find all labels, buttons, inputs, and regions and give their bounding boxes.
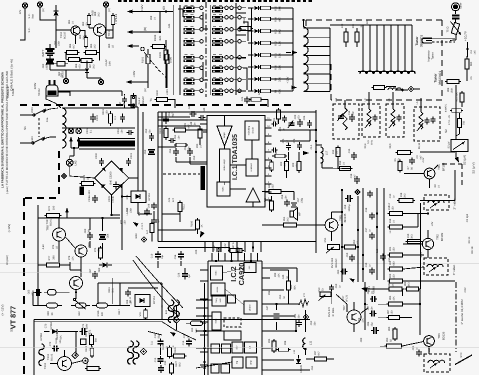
node label R14	[275, 17, 282, 22]
svg-text:C47: C47	[266, 305, 269, 310]
node label	[346, 252, 349, 257]
node label	[274, 272, 281, 278]
wire	[60, 264, 71, 266]
svg-text:RV1: RV1	[324, 237, 327, 242]
svg-text:Tuner: Tuner	[434, 73, 438, 83]
node label	[348, 110, 355, 115]
node pin numbers U1	[267, 117, 270, 200]
diode D27	[248, 89, 259, 93]
wire	[20, 114, 33, 116]
wire	[273, 7, 294, 9]
svg-text:C50: C50	[168, 111, 171, 116]
svg-text:R125: R125	[162, 343, 165, 350]
wire	[408, 72, 410, 75]
svg-text:1K: 1K	[343, 162, 346, 165]
svg-text:C18: C18	[376, 248, 379, 253]
svg-text:R63: R63	[79, 34, 82, 39]
svg-text:C53: C53	[335, 283, 338, 288]
wire	[44, 108, 58, 111]
svg-text:C21: C21	[279, 126, 282, 131]
wire	[337, 157, 339, 168]
wire	[102, 243, 104, 248]
capacitor C205	[113, 181, 119, 189]
resistor R110	[174, 143, 188, 147]
node label	[85, 345, 92, 352]
resistor R47b	[249, 98, 263, 102]
ic U2 box4	[244, 301, 257, 314]
node pin numbers U2	[211, 258, 259, 261]
node label R9	[275, 77, 282, 82]
node label TR2	[436, 232, 445, 241]
svg-text:4K7: 4K7	[73, 44, 76, 49]
wire	[365, 72, 367, 75]
svg-text:R49: R49	[268, 183, 271, 188]
svg-text:NTC: NTC	[460, 352, 463, 357]
wire	[241, 90, 246, 92]
svg-text:(+ -12V): (+ -12V)	[1, 305, 5, 316]
resistor R12b	[336, 146, 340, 159]
terminal X5	[98, 79, 103, 84]
terminal small circle	[141, 47, 145, 51]
node left note col2	[1, 59, 14, 332]
wire	[228, 7, 230, 9]
node label	[58, 70, 65, 78]
node label	[367, 305, 374, 310]
svg-text:C68: C68	[126, 207, 129, 212]
node label	[82, 21, 89, 26]
wire	[230, 188, 246, 190]
wire	[403, 226, 418, 228]
svg-text:R124: R124	[86, 360, 89, 367]
node label	[47, 311, 54, 316]
switch contact S8a	[184, 88, 195, 95]
terminal X6	[68, 128, 74, 134]
wire	[299, 224, 326, 226]
svg-text:32 (A4C): 32 (A4C)	[6, 255, 9, 265]
svg-text:R204: R204	[83, 174, 86, 181]
wire	[419, 289, 421, 335]
wire	[345, 42, 347, 47]
wire	[196, 362, 232, 368]
wire	[233, 40, 238, 42]
wire pin	[265, 135, 272, 137]
svg-text:C83: C83	[360, 337, 363, 342]
filter L12 box	[424, 354, 450, 372]
svg-text:BD241: BD241	[50, 218, 53, 226]
wire	[86, 61, 88, 67]
wire	[228, 56, 230, 58]
wire	[397, 25, 399, 71]
resistor R20b	[458, 117, 466, 130]
svg-text:-11,4V: -11,4V	[105, 59, 108, 67]
svg-text:TR5: TR5	[339, 215, 343, 221]
svg-text:150: 150	[393, 247, 396, 252]
node label	[98, 267, 101, 272]
node label	[389, 193, 396, 198]
node label	[52, 244, 59, 249]
wire	[33, 304, 38, 306]
svg-text:TIP141: TIP141	[114, 14, 118, 25]
node label	[416, 101, 419, 104]
inductor L6	[428, 200, 444, 208]
svg-text:3K3: 3K3	[408, 282, 411, 287]
svg-text:560: 560	[470, 61, 473, 66]
wire	[20, 142, 32, 144]
wire	[196, 347, 232, 349]
svg-text:470: 470	[398, 158, 401, 163]
transistor TR5 BD135	[325, 219, 338, 232]
switch contact S6b	[212, 65, 223, 72]
svg-text:C66: C66	[126, 299, 129, 304]
svg-text:C11: C11	[154, 333, 157, 338]
svg-text:470: 470	[322, 288, 325, 293]
ic U2 box2	[211, 283, 225, 296]
svg-text:R83: R83	[47, 311, 50, 316]
wire	[65, 53, 67, 60]
wire	[112, 304, 130, 306]
node label	[360, 337, 363, 342]
resistor R13b	[338, 167, 353, 171]
wire bus	[292, 8, 294, 91]
svg-text:1K: 1K	[72, 21, 75, 24]
svg-text:36,15: 36,15	[418, 142, 421, 149]
resistor R90b	[385, 344, 404, 348]
wire	[49, 58, 51, 70]
wire	[87, 77, 101, 79]
resistor R121	[90, 334, 98, 347]
wire dashed link	[38, 118, 40, 137]
node label	[341, 19, 369, 28]
node label	[367, 289, 374, 294]
svg-text:C59: C59	[346, 252, 349, 257]
inductor tuner coil bump	[374, 71, 380, 74]
node label	[389, 218, 396, 223]
node junction	[203, 299, 205, 363]
wire	[133, 107, 135, 108]
wire	[414, 88, 420, 90]
wire	[137, 107, 139, 191]
svg-text:C58: C58	[344, 204, 347, 209]
node label BY151	[126, 193, 151, 201]
wire bus	[235, 3, 237, 95]
svg-text:BF199: BF199	[440, 232, 444, 241]
svg-text:A17: A17	[146, 229, 149, 234]
svg-text:SM139: SM139	[300, 364, 303, 373]
svg-text:1μF: 1μF	[188, 273, 191, 278]
node label	[108, 286, 115, 292]
rectifier bridge B40	[95, 161, 129, 195]
wire	[228, 90, 230, 92]
svg-text:100: 100	[53, 205, 56, 210]
node label	[376, 248, 379, 253]
svg-text:10n: 10n	[123, 102, 126, 107]
svg-text:R82: R82	[404, 281, 407, 286]
svg-text:BY884: BY884	[50, 322, 53, 330]
svg-text:I.C.1 TDA1035: I.C.1 TDA1035	[232, 134, 239, 180]
resistor R77	[45, 255, 62, 267]
node label	[292, 162, 299, 168]
svg-text:+15V: +15V	[88, 190, 91, 196]
resistor R109	[173, 128, 188, 132]
svg-text:150: 150	[98, 248, 101, 253]
terminal X1	[22, 3, 27, 8]
wire	[365, 303, 368, 305]
wire pin	[262, 315, 270, 317]
resistor R65	[84, 51, 99, 55]
wire pin	[262, 359, 270, 361]
wire	[344, 100, 346, 108]
svg-text:TR7: TR7	[342, 295, 345, 300]
svg-text:C15: C15	[183, 333, 186, 338]
node label	[470, 50, 477, 55]
svg-text:10μ: 10μ	[371, 322, 374, 327]
wire dashed	[150, 60, 168, 80]
wire pin	[244, 253, 246, 261]
node label	[47, 353, 54, 361]
wire	[262, 224, 284, 226]
node label	[168, 23, 171, 28]
wire	[362, 25, 364, 71]
wire	[105, 7, 107, 14]
diode D20	[248, 6, 259, 10]
wire	[228, 242, 230, 253]
wire	[223, 56, 225, 58]
svg-text:33n: 33n	[298, 314, 301, 319]
node label	[118, 308, 121, 314]
svg-text:R72: R72	[138, 211, 141, 216]
node label	[213, 245, 216, 250]
wire	[390, 25, 392, 71]
capacitor C66	[125, 289, 131, 296]
wire	[66, 237, 76, 248]
wire	[331, 212, 333, 219]
wire arrow	[133, 222, 139, 227]
svg-text:R61: R61	[68, 19, 71, 24]
svg-text:R36: R36	[284, 340, 287, 345]
resistor R37	[313, 357, 329, 361]
wire	[220, 242, 222, 253]
wire pin	[265, 143, 272, 145]
wire	[233, 56, 238, 58]
wire	[427, 230, 429, 238]
svg-text:BC237: BC237	[64, 31, 67, 39]
capacitor C74	[158, 356, 164, 364]
wire	[298, 152, 300, 160]
wire	[89, 218, 91, 230]
svg-text:R21 10K: R21 10K	[456, 92, 459, 102]
wire	[184, 268, 186, 271]
wire	[99, 36, 101, 44]
svg-text:+10,7V: +10,7V	[464, 30, 468, 41]
wire pin	[200, 321, 208, 323]
svg-text:1,2V: 1,2V	[224, 243, 227, 248]
svg-text:BD136: BD136	[442, 331, 446, 340]
svg-text:OL1: OL1	[310, 144, 313, 149]
svg-text:4 MATC: 4 MATC	[445, 104, 448, 113]
svg-text:AP: AP	[298, 212, 302, 216]
wire	[251, 140, 253, 159]
wire	[380, 345, 387, 347]
top edge ticks	[118, 0, 312, 2]
test point	[173, 317, 179, 323]
node label	[154, 333, 161, 338]
ic U2 box5	[245, 342, 257, 353]
diode D63	[99, 263, 112, 268]
capacitor C50b el	[274, 314, 280, 318]
wire	[361, 308, 368, 313]
svg-text:C26: C26	[293, 138, 296, 143]
wire	[195, 67, 200, 69]
resistor R81	[387, 287, 404, 291]
node label	[184, 145, 191, 150]
node label R10	[275, 65, 282, 70]
svg-text:56K: 56K	[83, 35, 86, 40]
capacitor C48	[188, 104, 197, 117]
diode CR1 arrow	[361, 286, 376, 294]
wire	[223, 16, 225, 18]
node label	[162, 343, 169, 350]
svg-text:R108: R108	[159, 127, 162, 134]
wire bus	[208, 283, 210, 375]
capacitor L4c	[397, 114, 402, 121]
svg-text:50 Hz: 50 Hz	[37, 88, 41, 96]
wire	[38, 264, 47, 266]
wire	[58, 241, 60, 262]
wire	[100, 78, 102, 79]
inductor L2	[386, 87, 401, 91]
svg-text:R111: R111	[183, 204, 186, 210]
svg-text:50μ: 50μ	[158, 334, 161, 339]
svg-text:750: 750	[463, 120, 466, 125]
wire dashed	[163, 173, 200, 175]
resistor R124	[85, 367, 101, 371]
wire	[165, 40, 167, 50]
wire	[124, 105, 126, 109]
svg-text:100: 100	[106, 110, 109, 115]
svg-text:R52: R52	[353, 239, 356, 244]
svg-text:BD142: BD142	[51, 353, 54, 361]
node label	[388, 326, 395, 331]
wire	[353, 302, 355, 310]
ic U1 video box	[220, 149, 231, 182]
svg-text:C204: C204	[117, 127, 120, 134]
node label	[268, 338, 275, 343]
svg-text:10n: 10n	[285, 195, 288, 200]
svg-text:R22: R22	[280, 161, 283, 166]
resistor R86	[445, 80, 461, 84]
node contact dot row7	[200, 78, 241, 81]
svg-text:BY884: BY884	[40, 333, 43, 341]
op-amp U1 triangle	[217, 126, 232, 146]
ic U2 box13	[211, 364, 219, 373]
node label	[300, 364, 314, 373]
svg-text:1000μ: 1000μ	[348, 204, 351, 212]
svg-text:1K: 1K	[360, 24, 363, 27]
connector fork	[422, 38, 455, 43]
resistor R64	[65, 51, 80, 55]
capacitor C21	[282, 115, 287, 122]
lamp LA3	[66, 159, 73, 166]
svg-text:ampl.: ampl.	[223, 132, 226, 138]
wire	[461, 103, 463, 107]
wire	[233, 90, 238, 92]
capacitor C30b	[236, 248, 241, 253]
node label	[367, 321, 374, 326]
svg-text:noise: noise	[216, 286, 219, 292]
wire	[176, 161, 207, 163]
ic block	[224, 331, 241, 340]
node label	[420, 252, 423, 258]
node label	[335, 97, 338, 102]
wire	[203, 62, 208, 80]
inductor L4	[391, 109, 395, 126]
node contact dot row1	[200, 6, 241, 9]
capacitor C29b	[216, 248, 221, 253]
wire	[306, 358, 315, 360]
node label	[388, 98, 391, 101]
node label	[389, 260, 396, 265]
switch contact S5b	[212, 55, 223, 62]
node label R15	[275, 6, 282, 11]
capacitor C69	[144, 208, 150, 215]
wire	[190, 163, 207, 165]
svg-text:R105: R105	[159, 51, 162, 58]
node label	[184, 122, 191, 129]
node label	[339, 160, 346, 165]
capacitor C30 bar	[201, 166, 206, 190]
svg-text:C46: C46	[148, 203, 151, 208]
resistor R11	[259, 53, 273, 57]
wire	[358, 71, 415, 73]
resistor R75	[99, 246, 103, 260]
svg-text:10K: 10K	[393, 296, 396, 301]
wire tap	[304, 45, 331, 47]
svg-text:C201: C201	[130, 152, 133, 159]
svg-text:+12V: +12V	[140, 4, 144, 11]
wire	[356, 42, 358, 47]
signal waveform	[299, 299, 309, 307]
node label	[434, 184, 441, 188]
wire bus	[204, 283, 206, 375]
svg-text:video ampl: video ampl	[223, 159, 226, 171]
capacitor L3c	[373, 114, 378, 121]
svg-text:120: 120	[393, 274, 396, 279]
svg-text:4μ7: 4μ7	[172, 112, 175, 117]
node label	[90, 43, 97, 49]
wire	[56, 29, 71, 31]
diode D5 arrow	[303, 151, 309, 155]
svg-text:CR2: CR2	[464, 287, 467, 293]
node label	[175, 360, 182, 367]
svg-text:1K: 1K	[389, 230, 392, 233]
wire	[346, 304, 348, 312]
node junctions	[37, 10, 429, 369]
svg-text:56K: 56K	[163, 129, 166, 134]
svg-text:2K2: 2K2	[93, 64, 96, 69]
svg-text:TR2: TR2	[436, 234, 440, 240]
wire pin	[200, 298, 208, 300]
wire	[241, 79, 246, 81]
svg-text:C13: C13	[164, 360, 167, 365]
node label R12	[275, 41, 282, 46]
node contact dot row2	[200, 16, 241, 19]
wire pin	[200, 351, 208, 353]
wire	[273, 54, 294, 56]
svg-text:1Ω: 1Ω	[112, 45, 115, 48]
svg-text:R40: R40	[290, 284, 293, 289]
switch contact S2b	[212, 15, 223, 22]
svg-text:+33V: +33V	[132, 71, 136, 78]
